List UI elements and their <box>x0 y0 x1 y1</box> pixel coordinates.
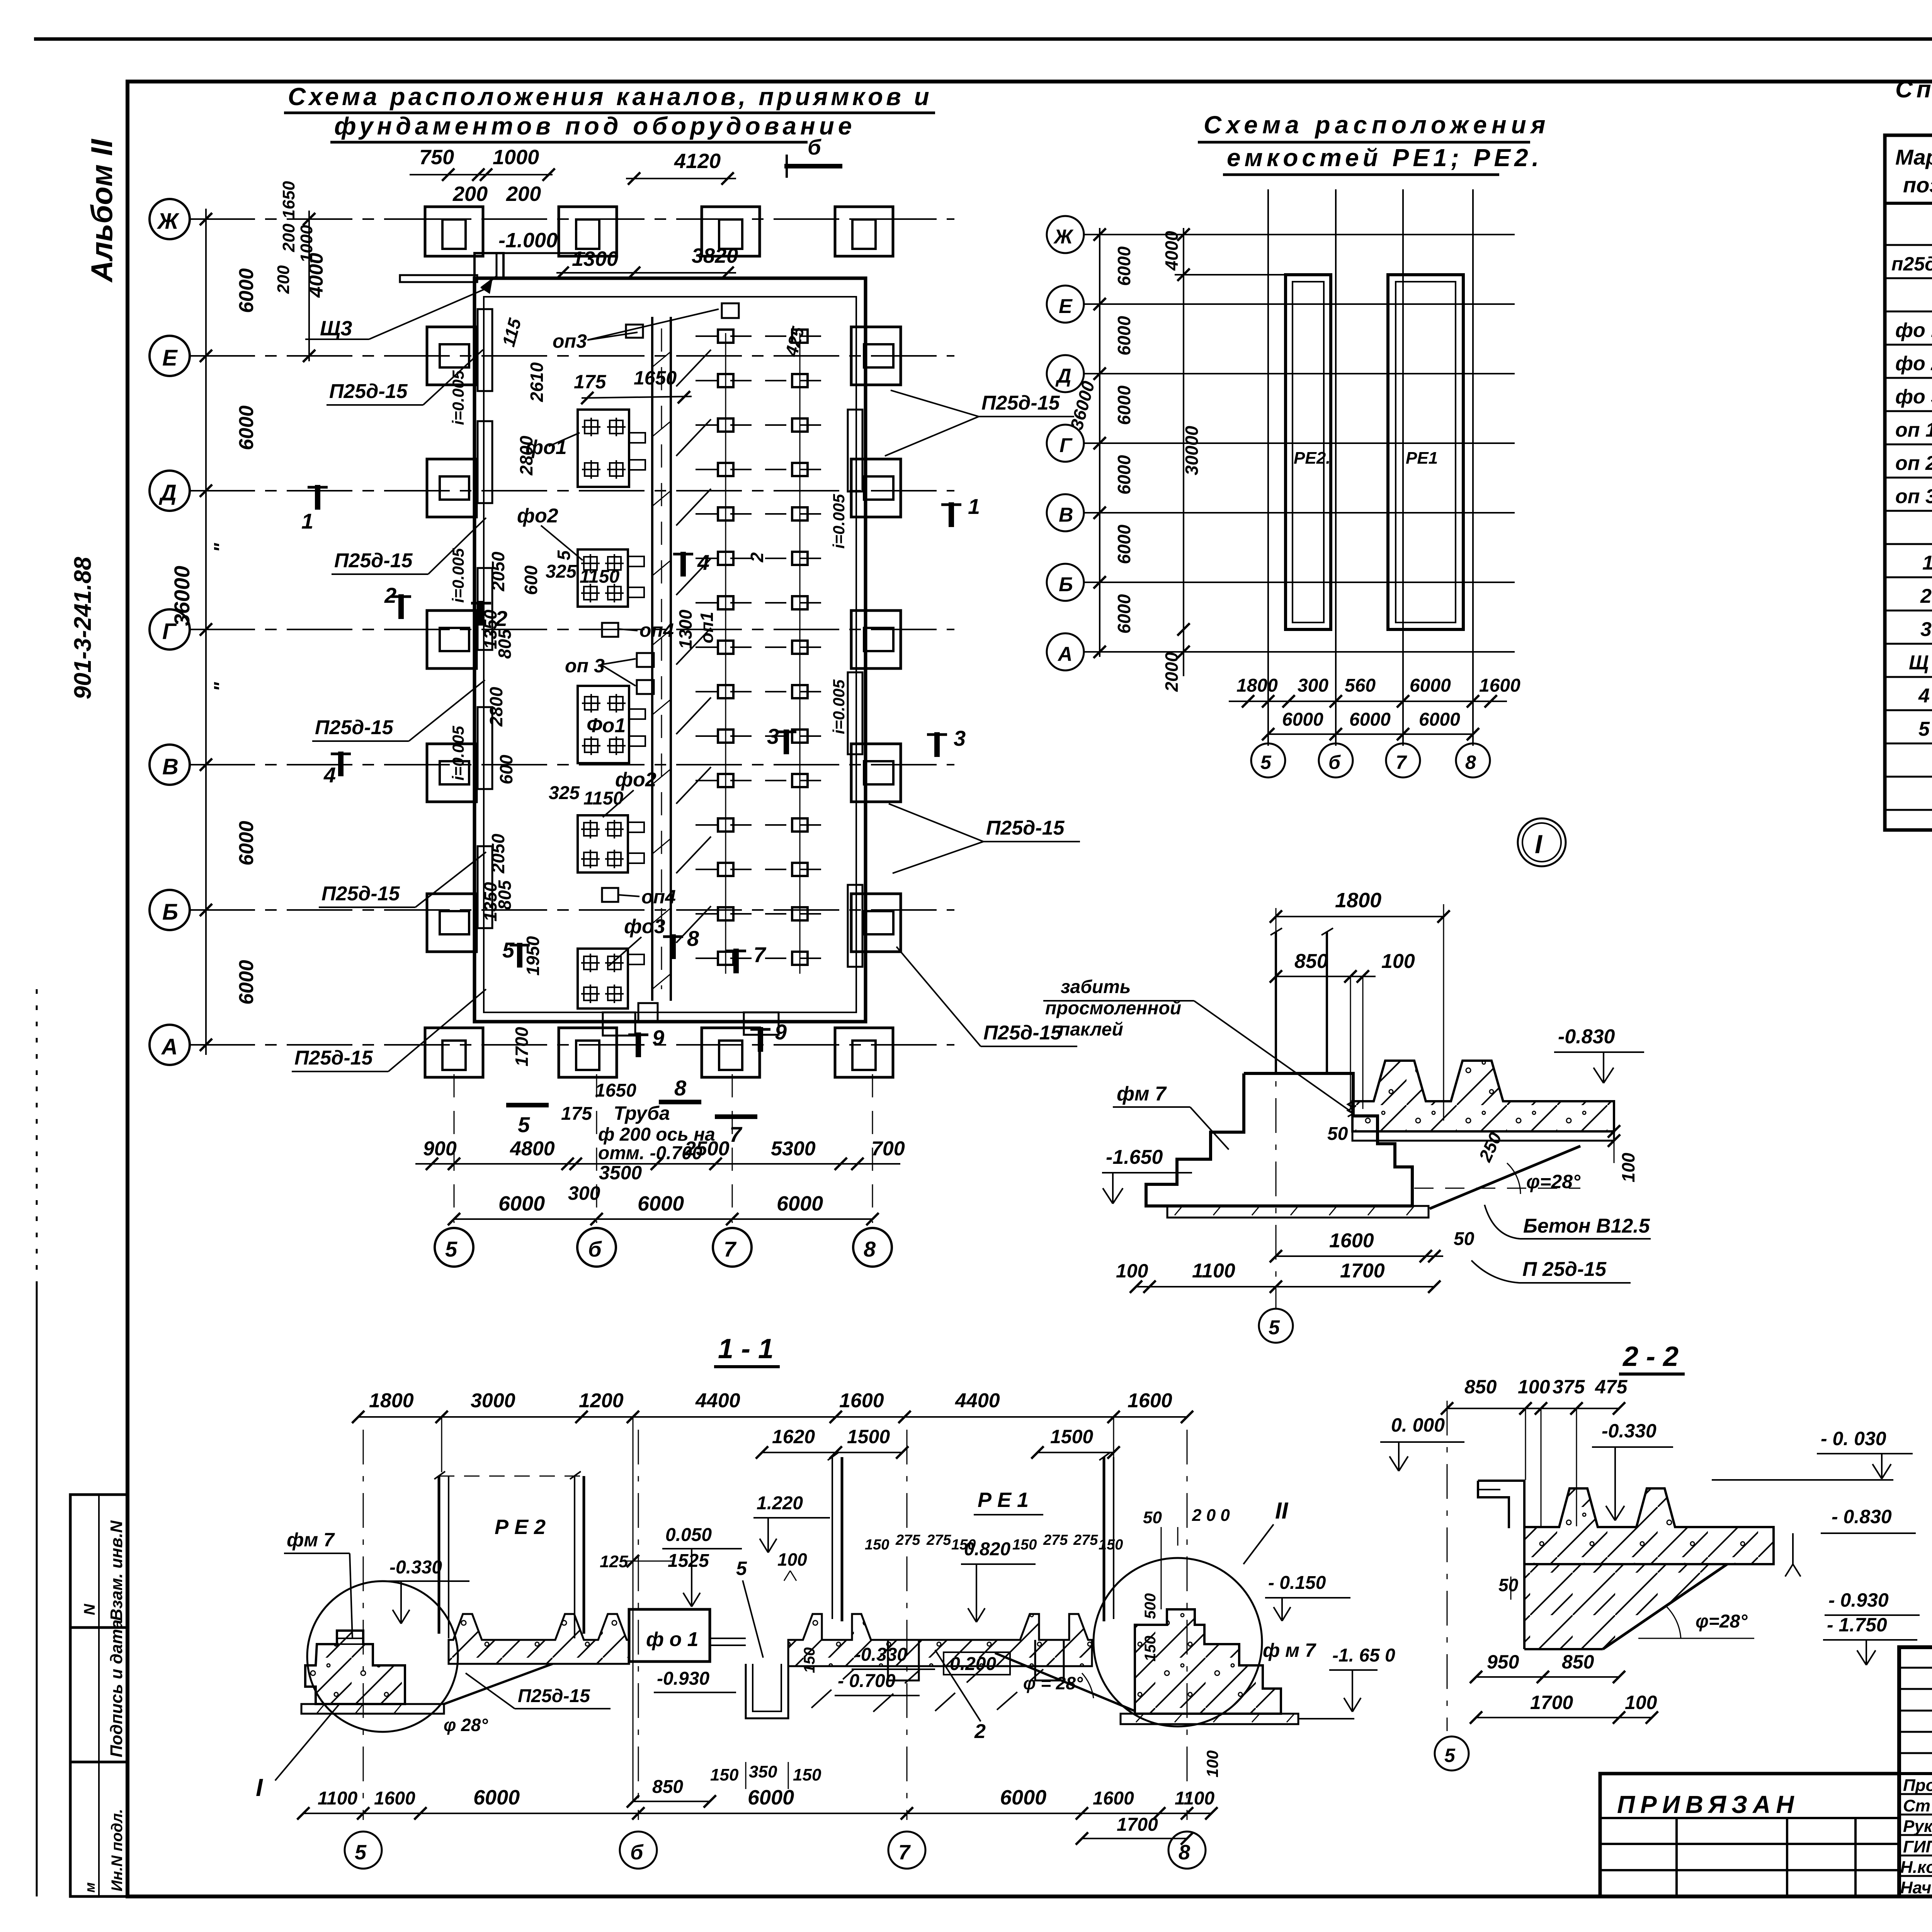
tank RE1 inner <box>1396 282 1456 622</box>
svg-text:150: 150 <box>793 1765 821 1784</box>
grid bubble A <box>150 1025 190 1065</box>
svg-text:В: В <box>162 754 179 779</box>
slab underside plate <box>1352 1131 1614 1141</box>
svg-text:6000: 6000 <box>235 268 258 313</box>
svg-text:- 0.700: - 0.700 <box>838 1671 896 1691</box>
svg-text:-0.330: -0.330 <box>1602 1420 1656 1442</box>
svg-text:30000: 30000 <box>1182 426 1202 475</box>
svg-text:2610: 2610 <box>527 362 547 402</box>
svg-text:3000: 3000 <box>471 1389 515 1412</box>
svg-text:м: м <box>82 1882 98 1893</box>
svg-text:- 0.830: - 0.830 <box>1832 1506 1892 1527</box>
spec header row bottom <box>1885 202 1932 205</box>
svg-text:36000: 36000 <box>170 566 194 626</box>
svg-text:2800: 2800 <box>516 435 536 476</box>
svg-text:1100: 1100 <box>318 1788 358 1809</box>
svg-text:φ=28°: φ=28° <box>1696 1611 1748 1632</box>
svg-text:850: 850 <box>652 1777 683 1797</box>
top-left wall bar extension <box>400 275 477 282</box>
svg-text:50: 50 <box>1454 1229 1475 1249</box>
svg-text:2: 2 <box>747 552 767 563</box>
detail circle I around left node <box>307 1581 458 1732</box>
svg-text:1600: 1600 <box>1479 675 1520 696</box>
svg-text:175: 175 <box>574 371 607 393</box>
svg-text:500: 500 <box>1142 1593 1159 1619</box>
svg-text:1500: 1500 <box>1050 1426 1093 1447</box>
svg-text:805: 805 <box>495 880 515 910</box>
svg-text:1800: 1800 <box>1236 675 1278 696</box>
svg-text:2: 2 <box>384 583 396 607</box>
svg-text:3500: 3500 <box>599 1162 642 1184</box>
svg-text:": " <box>210 543 233 553</box>
signature row lines <box>1899 1793 1932 1795</box>
svg-text:150: 150 <box>1099 1537 1123 1553</box>
svg-text:200: 200 <box>506 182 541 206</box>
section cut marker 4 mid <box>673 552 693 577</box>
section cut marker 7 mid <box>726 949 746 973</box>
svg-text:1800: 1800 <box>1335 889 1381 912</box>
svg-text:100: 100 <box>1116 1260 1148 1282</box>
section cut marker 8 mid <box>663 934 683 959</box>
svg-text:2500: 2500 <box>684 1138 730 1160</box>
svg-text:Д: Д <box>158 480 177 505</box>
slab band with bumps <box>1524 1488 1774 1564</box>
mid left dim line <box>1099 228 1100 657</box>
svg-text:П25д-15: П25д-15 <box>334 549 413 572</box>
svg-text:2: 2 <box>495 606 507 631</box>
slab band A with bumps <box>449 1614 629 1664</box>
svg-text:i=0.005: i=0.005 <box>449 548 467 603</box>
svg-text:Щ 3: Щ 3 <box>1909 651 1932 674</box>
svg-text:Труба: Труба <box>614 1102 670 1124</box>
svg-text:4400: 4400 <box>955 1389 1000 1412</box>
column axis extension lines <box>454 1074 455 1223</box>
svg-text:Н.контр: Н.контр <box>1900 1858 1932 1877</box>
svg-text:175: 175 <box>561 1104 592 1124</box>
svg-text:6000: 6000 <box>235 405 258 450</box>
svg-text:I: I <box>1535 830 1543 859</box>
svg-text:6000: 6000 <box>1114 246 1134 286</box>
svg-text:Рук гр: Рук гр <box>1903 1817 1932 1836</box>
svg-text:забить: забить <box>1061 977 1131 997</box>
svg-text:-0.930: -0.930 <box>657 1668 709 1689</box>
svg-text:1950: 1950 <box>523 936 543 976</box>
svg-text:А: А <box>1057 643 1073 665</box>
mid grid line V <box>1084 512 1515 514</box>
svg-text:200: 200 <box>274 265 293 294</box>
svg-text:1000: 1000 <box>297 225 316 263</box>
svg-text:ПРИВЯЗАН: ПРИВЯЗАН <box>1617 1791 1799 1818</box>
svg-text:φ=28°: φ=28° <box>1526 1171 1581 1192</box>
svg-text:9: 9 <box>652 1026 664 1050</box>
svg-text:100: 100 <box>1203 1750 1221 1777</box>
P25d-15 wall plates right <box>848 410 862 492</box>
grid line V <box>189 764 954 765</box>
svg-text:N: N <box>81 1604 98 1615</box>
grid bubble B <box>150 890 190 930</box>
svg-text:900: 900 <box>423 1138 457 1160</box>
svg-text:6000: 6000 <box>777 1192 823 1215</box>
svg-text:фо 3: фо 3 <box>1895 386 1932 408</box>
svg-text:П25д-15: П25д-15 <box>986 817 1065 839</box>
svg-text:Фо1: Фо1 <box>587 714 626 737</box>
svg-text:- 1.750: - 1.750 <box>1827 1614 1887 1636</box>
channel (truba) vertical <box>651 317 653 1001</box>
svg-text:1500: 1500 <box>847 1426 890 1447</box>
svg-text:7: 7 <box>730 1122 743 1146</box>
svg-text:-0.830: -0.830 <box>1558 1026 1615 1048</box>
top dimension row <box>358 1416 1187 1418</box>
privyazan grid rows <box>1600 1817 1899 1819</box>
svg-text:5: 5 <box>355 1841 367 1864</box>
svg-text:3: 3 <box>954 726 966 750</box>
svg-text:6000: 6000 <box>235 821 258 866</box>
svg-text:2: 2 <box>974 1720 986 1743</box>
grid line A <box>189 1044 954 1046</box>
svg-text:8: 8 <box>864 1237 876 1261</box>
svg-text:-1.000: -1.000 <box>498 229 558 252</box>
svg-text:1300: 1300 <box>675 609 696 649</box>
equipment foundation block fo2 upper <box>578 549 644 607</box>
detail circle I <box>1518 818 1566 866</box>
section cut marker 2 upper <box>391 594 411 619</box>
svg-text:i=0.005: i=0.005 <box>449 370 467 425</box>
svg-text:1700: 1700 <box>512 1027 532 1066</box>
svg-text:1 - 1: 1 - 1 <box>718 1333 774 1364</box>
concrete wedge slope <box>1430 1146 1580 1209</box>
svg-text:i=0.005: i=0.005 <box>830 679 848 734</box>
top dims 850 100 375 475 <box>1447 1408 1619 1409</box>
mid bottom dim row 1 <box>1229 701 1507 702</box>
svg-text:поз.: поз. <box>1903 173 1932 197</box>
top row footings <box>425 207 483 256</box>
svg-text:1.220: 1.220 <box>757 1493 803 1514</box>
svg-text:4120: 4120 <box>674 150 721 173</box>
svg-text:6000: 6000 <box>473 1786 520 1809</box>
svg-text:П25д-15: П25д-15 <box>294 1047 373 1069</box>
svg-text:5: 5 <box>1444 1745 1456 1766</box>
bottom wall small pits <box>603 1012 635 1036</box>
svg-text:РЕ1: РЕ1 <box>1406 449 1438 468</box>
grid bubble D <box>150 471 190 511</box>
svg-text:Б: Б <box>162 900 178 925</box>
svg-text:1650: 1650 <box>634 367 677 389</box>
svg-text:1600: 1600 <box>374 1788 415 1809</box>
mid grid line E <box>1084 303 1515 305</box>
grid bubble G <box>150 609 190 650</box>
tank RE1 outer <box>1388 275 1463 629</box>
svg-text:5: 5 <box>736 1558 747 1579</box>
svg-text:П25д-15: П25д-15 <box>321 883 400 905</box>
section cut marker 5 left <box>510 943 530 968</box>
svg-text:0.050: 0.050 <box>665 1525 712 1545</box>
section cut marker 2 mid <box>471 601 491 626</box>
svg-text:850: 850 <box>1562 1651 1594 1673</box>
secondary dim line 4000 <box>308 211 310 361</box>
top dim tick for 4000 <box>1175 274 1287 276</box>
upper empty row lines <box>1899 1667 1932 1669</box>
svg-text:оп 3: оп 3 <box>565 655 605 677</box>
mid bottom dim row 2 <box>1268 733 1473 735</box>
tar seal hatch <box>1348 1101 1353 1117</box>
svg-text:1620: 1620 <box>772 1426 815 1447</box>
svg-text:ГИП: ГИП <box>1903 1837 1932 1856</box>
svg-text:1: 1 <box>968 494 980 519</box>
op3 support top <box>722 303 739 318</box>
svg-text:250: 250 <box>1475 1129 1506 1165</box>
svg-text:оп4: оп4 <box>639 619 674 641</box>
svg-text:-0.330: -0.330 <box>389 1557 442 1578</box>
svg-text:П 25д-15: П 25д-15 <box>1522 1258 1607 1281</box>
tank RE2 outer <box>1286 275 1331 629</box>
svg-text:50: 50 <box>1143 1508 1162 1527</box>
column walls <box>1275 932 1277 1073</box>
svg-text:200 1650: 200 1650 <box>279 181 298 252</box>
equipment foundation block fo1 upper <box>578 410 645 487</box>
channel hatch ticks <box>652 352 671 989</box>
shch3 leader line <box>369 288 488 339</box>
bottom lean concrete slab <box>1167 1206 1429 1218</box>
svg-text:оп 3: оп 3 <box>1895 485 1932 508</box>
column bubble 5 <box>435 1228 473 1267</box>
svg-text:1600: 1600 <box>839 1389 884 1412</box>
dim 100 right rotated <box>1614 1113 1615 1163</box>
mid grid line B <box>1084 582 1515 583</box>
svg-text:Е: Е <box>1059 295 1073 318</box>
svg-text:2 0 0: 2 0 0 <box>1192 1506 1230 1525</box>
svg-text:ф м 7: ф м 7 <box>1263 1639 1316 1661</box>
svg-text:б: б <box>1328 752 1341 773</box>
svg-text:-1. 65 0: -1. 65 0 <box>1332 1645 1395 1666</box>
sheet top edge line <box>34 37 1932 41</box>
svg-text:5: 5 <box>502 938 515 962</box>
mid grid line D <box>1084 373 1515 374</box>
svg-text:6000: 6000 <box>1114 455 1134 495</box>
svg-text:П25д-15: П25д-15 <box>983 1022 1062 1044</box>
svg-text:850: 850 <box>1464 1376 1497 1398</box>
svg-text:емкостей РЕ1; РЕ2.: емкостей РЕ1; РЕ2. <box>1227 144 1543 172</box>
svg-text:5: 5 <box>1269 1316 1280 1339</box>
svg-text:Ж: Ж <box>156 209 180 234</box>
svg-text:фундаментов под оборудование: фундаментов под оборудование <box>334 112 855 140</box>
second dim row 1620 1500 <box>762 1452 902 1453</box>
svg-text:Ин.N подл.: Ин.N подл. <box>109 1809 126 1891</box>
left vertical dimension line <box>205 209 207 1055</box>
svg-text:Схема расположения каналов,: Схема расположения каналов, приямков и <box>288 83 932 111</box>
section marker 6 top right <box>784 164 842 168</box>
svg-text:560: 560 <box>1345 675 1376 696</box>
svg-text:1650: 1650 <box>595 1080 636 1101</box>
svg-text:700: 700 <box>871 1138 905 1160</box>
left base slab <box>301 1704 444 1714</box>
svg-text:50: 50 <box>1327 1124 1348 1144</box>
svg-text:Провер: Провер <box>1903 1776 1932 1795</box>
tank RE2 inner <box>1293 282 1324 622</box>
svg-text:1525: 1525 <box>668 1551 709 1571</box>
svg-text:115: 115 <box>498 316 525 349</box>
svg-text:475: 475 <box>1595 1376 1628 1398</box>
svg-text:300: 300 <box>1298 675 1328 696</box>
svg-text:4400: 4400 <box>695 1389 740 1412</box>
op4 support mid <box>602 623 618 637</box>
svg-text:1700: 1700 <box>1117 1815 1158 1835</box>
svg-text:1200: 1200 <box>579 1389 624 1412</box>
svg-text:6000: 6000 <box>1000 1786 1046 1809</box>
svg-text:Подпись и дата: Подпись и дата <box>107 1619 126 1757</box>
svg-text:4: 4 <box>1918 685 1930 707</box>
column bubble 7 <box>713 1228 752 1267</box>
svg-text:Альбом II: Альбом II <box>85 139 119 283</box>
svg-text:оп3: оп3 <box>553 330 587 352</box>
bottom row footings <box>425 1028 483 1077</box>
svg-text:Щ3: Щ3 <box>320 317 352 340</box>
svg-text:300: 300 <box>568 1182 600 1204</box>
column bubble 8 <box>853 1228 892 1267</box>
svg-text:1600: 1600 <box>1329 1230 1374 1252</box>
svg-text:фо2: фо2 <box>517 505 558 527</box>
detail circle II around right node <box>1094 1558 1262 1726</box>
svg-text:Ст инж.: Ст инж. <box>1903 1796 1932 1815</box>
svg-text:2 - 2: 2 - 2 <box>1622 1341 1679 1372</box>
svg-text:2: 2 <box>1920 585 1932 607</box>
svg-text:7: 7 <box>898 1841 911 1864</box>
svg-text:6000: 6000 <box>1114 316 1134 355</box>
svg-text:оп 2: оп 2 <box>1895 452 1932 474</box>
svg-text:100: 100 <box>1518 1376 1550 1398</box>
svg-text:600: 600 <box>496 755 516 784</box>
svg-text:3: 3 <box>767 724 779 748</box>
section cut marker 9 a <box>628 1032 648 1057</box>
svg-text:Схема расположения: Схема расположения <box>1204 111 1550 139</box>
tank RE1 walls <box>832 1457 833 1619</box>
svg-text:6000: 6000 <box>498 1192 545 1215</box>
slope line left <box>444 1664 553 1704</box>
svg-text:φ 28°: φ 28° <box>444 1715 488 1735</box>
svg-text:фо 1: фо 1 <box>1895 319 1932 342</box>
svg-text:3: 3 <box>1920 618 1932 641</box>
equipment foundation block fo1 lower <box>578 686 645 763</box>
grid line Zh <box>189 218 954 220</box>
axis line <box>1447 1401 1448 1731</box>
grid bubble Zh <box>150 199 190 239</box>
column bubble 6 <box>577 1228 616 1267</box>
svg-text:325: 325 <box>546 561 577 582</box>
mid grid line A <box>1084 651 1515 653</box>
svg-text:Взам. инв.N: Взам. инв.N <box>107 1520 126 1621</box>
svg-text:оп1: оп1 <box>697 612 717 643</box>
svg-text:А: А <box>161 1034 178 1060</box>
fm7 foundation block <box>1146 1073 1412 1206</box>
svg-text:1700: 1700 <box>1530 1692 1573 1713</box>
svg-text:805: 805 <box>495 629 515 659</box>
svg-text:150: 150 <box>1012 1537 1037 1553</box>
svg-text:2050: 2050 <box>488 833 508 874</box>
right base slab <box>1121 1714 1298 1724</box>
soil hatch under band B <box>811 1669 1043 1712</box>
svg-text:Р Е 1: Р Е 1 <box>978 1488 1029 1512</box>
svg-text:5: 5 <box>445 1237 457 1261</box>
svg-text:200: 200 <box>452 182 488 206</box>
svg-text:РЕ2.: РЕ2. <box>1294 449 1330 468</box>
svg-text:6000: 6000 <box>235 960 258 1005</box>
dim 1600 <box>1276 1255 1443 1257</box>
svg-text:901-3-241.88: 901-3-241.88 <box>70 557 96 699</box>
svg-text:150: 150 <box>865 1537 889 1553</box>
grid line E <box>189 355 954 357</box>
support rows with op squares <box>726 333 800 974</box>
svg-text:7: 7 <box>753 942 767 967</box>
svg-text:150: 150 <box>801 1647 818 1673</box>
svg-text:фм 7: фм 7 <box>1117 1083 1167 1105</box>
svg-text:ф о 1: ф о 1 <box>646 1628 699 1651</box>
svg-text:φ = 28°: φ = 28° <box>1023 1673 1083 1693</box>
slab band B under RE1 <box>788 1614 1092 1666</box>
bottom dimension row 2 <box>454 1218 872 1220</box>
svg-text:0.200: 0.200 <box>950 1654 996 1674</box>
svg-text:6000: 6000 <box>1349 709 1391 730</box>
svg-text:фм 7: фм 7 <box>287 1529 335 1551</box>
svg-text:0.820: 0.820 <box>964 1539 1010 1560</box>
svg-text:600: 600 <box>521 565 541 595</box>
mid grid line Zh <box>1084 234 1515 235</box>
svg-text:350: 350 <box>749 1762 777 1781</box>
svg-text:i=0.005: i=0.005 <box>449 726 467 781</box>
mid column lines <box>1267 189 1269 746</box>
svg-text:6000: 6000 <box>1114 385 1134 425</box>
op3 support mid <box>637 653 654 667</box>
section cut marker 1 left <box>308 485 328 510</box>
svg-text:8: 8 <box>1179 1841 1190 1864</box>
svg-text:2050: 2050 <box>488 551 508 592</box>
svg-text:6000: 6000 <box>638 1192 684 1215</box>
privyazan grid columns <box>1675 1818 1678 1896</box>
svg-text:750: 750 <box>419 146 454 169</box>
privyazan extension box <box>1600 1774 1899 1896</box>
svg-text:275: 275 <box>1043 1532 1068 1548</box>
svg-text:Нач отд: Нач отд <box>1900 1878 1932 1897</box>
grid bubble V <box>150 745 190 785</box>
bubble 5 <box>1259 1309 1293 1343</box>
bottom dimension row 1 <box>415 1163 900 1165</box>
svg-text:1800: 1800 <box>369 1389 414 1412</box>
svg-text:50: 50 <box>1498 1575 1519 1595</box>
svg-text:5: 5 <box>1260 752 1272 773</box>
svg-text:П25д-15: П25д-15 <box>518 1686 590 1706</box>
P25d-15 wall plates left <box>478 309 492 391</box>
channel slope diagonals <box>676 350 711 943</box>
bottom cut markers 5 8 7 <box>506 1103 549 1107</box>
mid column bubbles <box>1251 743 1285 777</box>
svg-text:100: 100 <box>1618 1153 1638 1182</box>
dim 850 100 <box>1276 976 1376 977</box>
svg-text:325: 325 <box>549 783 580 803</box>
building outer wall <box>474 278 866 1022</box>
left corner angle piece <box>1478 1481 1524 1528</box>
building inner wall <box>484 297 856 1012</box>
svg-text:П25д-15: П25д-15 <box>981 392 1060 414</box>
I label with leader <box>275 1703 340 1781</box>
svg-text:I: I <box>256 1774 263 1801</box>
svg-text:5: 5 <box>1918 718 1930 740</box>
dim 100 1100 1700 <box>1136 1286 1434 1287</box>
svg-text:100: 100 <box>1381 950 1415 973</box>
svg-text:5: 5 <box>554 550 574 560</box>
spec row lines <box>1885 244 1932 246</box>
svg-text:0. 000: 0. 000 <box>1391 1414 1445 1436</box>
left column footings <box>427 327 476 385</box>
grid line G <box>189 629 954 630</box>
svg-text:6000: 6000 <box>1419 709 1460 730</box>
